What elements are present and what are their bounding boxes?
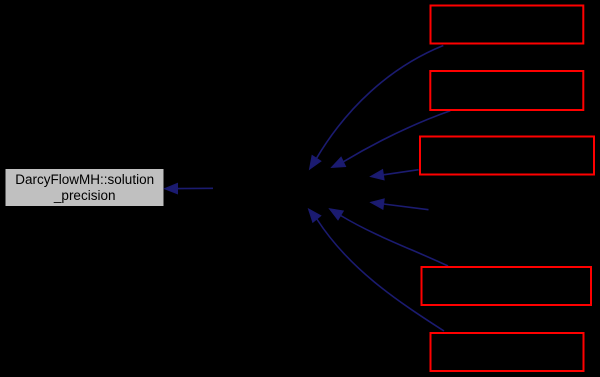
wire red box 4 to central node	[330, 209, 449, 266]
red box 4	[422, 267, 592, 305]
red box 2	[430, 71, 583, 110]
wire hidden node to central node	[371, 199, 429, 210]
red box 1	[431, 6, 584, 44]
wire red box 2 to central node	[332, 111, 451, 168]
wire red box 5 to central node	[309, 209, 445, 331]
red box 5	[431, 333, 584, 371]
svg-text:DarcyFlowMH::solution: DarcyFlowMH::solution	[15, 172, 154, 187]
wire central node to solution_precision	[165, 183, 214, 193]
svg-text:_precision: _precision	[53, 188, 116, 203]
hidden node (black-bordered, invisible on black)	[429, 190, 585, 230]
wire red box 3 to central node	[371, 170, 419, 180]
red box 3	[420, 137, 594, 175]
node DarcyFlowMH::solution_precision	[5, 169, 164, 207]
wire red box 1 to central node	[310, 46, 444, 170]
central node (black on black, invisible)	[213, 168, 372, 207]
